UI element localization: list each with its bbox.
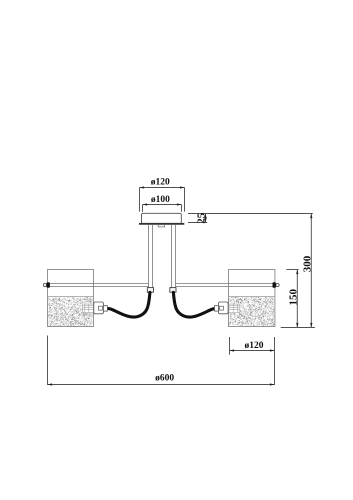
extension line canopy-bottom (for 25 dim) <box>188 222 207 224</box>
svg-text:ø120: ø120 <box>245 341 264 351</box>
dim ø120 bottom: right arrow <box>270 349 275 351</box>
dim ø100: right extension line <box>181 205 183 212</box>
dim ø100: left extension line <box>142 205 144 212</box>
dim ø120 bottom: dimension line <box>230 350 275 352</box>
dim ø100: right arrow <box>177 203 182 205</box>
shared bottom extension line (150/300) <box>281 327 315 329</box>
left shade outline <box>48 270 94 327</box>
right rod ferrule <box>170 288 176 293</box>
right stem rod <box>172 225 176 288</box>
svg-text:25: 25 <box>195 212 207 224</box>
left socket inner detail <box>99 306 103 310</box>
left rod ferrule <box>147 288 153 293</box>
svg-text:ø120: ø120 <box>151 178 170 188</box>
right cable <box>173 292 214 317</box>
dim ø100: dimension line <box>143 204 182 206</box>
left socket body <box>94 302 104 314</box>
left socket thread (inside shade) <box>83 304 94 312</box>
left arm fastening knob <box>47 282 50 288</box>
left stem rod <box>149 225 153 288</box>
dim ø120 top: dimension line <box>140 187 185 189</box>
dim ø120 bottom: right extension line (continues to ø600) <box>274 337 276 385</box>
left cable <box>109 292 150 317</box>
dim ø120 top: right arrow <box>180 186 185 188</box>
left shade frosted band <box>48 297 94 327</box>
dim ø600: dimension line <box>48 384 275 386</box>
right arm tube <box>176 284 275 287</box>
dim ø120 top: left arrow <box>140 186 145 188</box>
dim ø600: left arrow <box>48 383 53 385</box>
dim ø120 bottom: left arrow <box>230 349 235 351</box>
dim ø120 top: right extension line <box>184 188 186 212</box>
svg-text:150: 150 <box>287 289 299 306</box>
right socket body <box>219 302 229 314</box>
dim ø100: left arrow <box>143 203 148 205</box>
right shade outline <box>229 270 275 327</box>
right socket inner detail <box>220 306 224 310</box>
dim 150: top arrow <box>296 270 298 275</box>
dim 300: top arrow <box>310 214 312 219</box>
canopy flange plate <box>139 223 184 225</box>
dim ø120 top: left extension line <box>139 188 141 212</box>
left arm end screw head <box>43 283 46 286</box>
svg-text:300: 300 <box>301 255 313 272</box>
left arm tube <box>47 284 149 287</box>
right arm end screw head <box>276 283 279 286</box>
right socket strain-relief nub <box>215 306 219 311</box>
left socket strain-relief nub <box>103 306 107 311</box>
canopy body <box>142 213 182 223</box>
right arm fastening knob <box>273 282 276 288</box>
dim ø120 bottom: left extension line <box>229 337 231 355</box>
extension line canopy-top (for 25 and 300 dims) <box>188 213 313 215</box>
dim 300: bottom arrow <box>310 323 312 328</box>
dim 25: dimension line <box>205 214 207 223</box>
right socket thread (inside shade) <box>229 304 240 312</box>
svg-text:ø600: ø600 <box>155 374 174 384</box>
right shade frosted band <box>229 297 275 327</box>
dim 25: top arrow <box>204 214 206 219</box>
dim 150: bottom arrow <box>296 323 298 328</box>
dim ø600: left extension line <box>47 336 49 386</box>
dim ø600: right arrow <box>270 383 275 385</box>
svg-text:ø100: ø100 <box>151 195 170 205</box>
dim 150: dimension line <box>296 270 298 328</box>
canopy cable notch <box>158 225 164 227</box>
dim 150: top extension line <box>286 269 298 271</box>
dim 300: dimension line <box>310 214 312 328</box>
dim 25: bottom arrow <box>204 218 206 223</box>
